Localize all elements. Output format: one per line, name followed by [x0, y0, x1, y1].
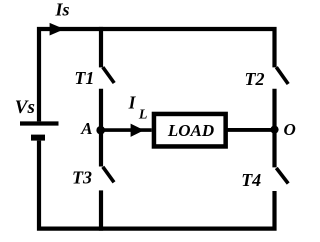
- svg-text:T2: T2: [245, 69, 265, 89]
- svg-text:I: I: [128, 93, 137, 113]
- svg-text:Vs: Vs: [15, 97, 35, 118]
- svg-text:LOAD: LOAD: [167, 121, 214, 140]
- svg-text:T1: T1: [74, 68, 94, 88]
- svg-text:L: L: [138, 108, 148, 123]
- svg-text:T3: T3: [72, 168, 92, 188]
- svg-text:O: O: [284, 120, 296, 139]
- svg-text:T4: T4: [241, 170, 261, 190]
- svg-text:Is: Is: [55, 0, 70, 20]
- svg-text:A: A: [80, 119, 92, 138]
